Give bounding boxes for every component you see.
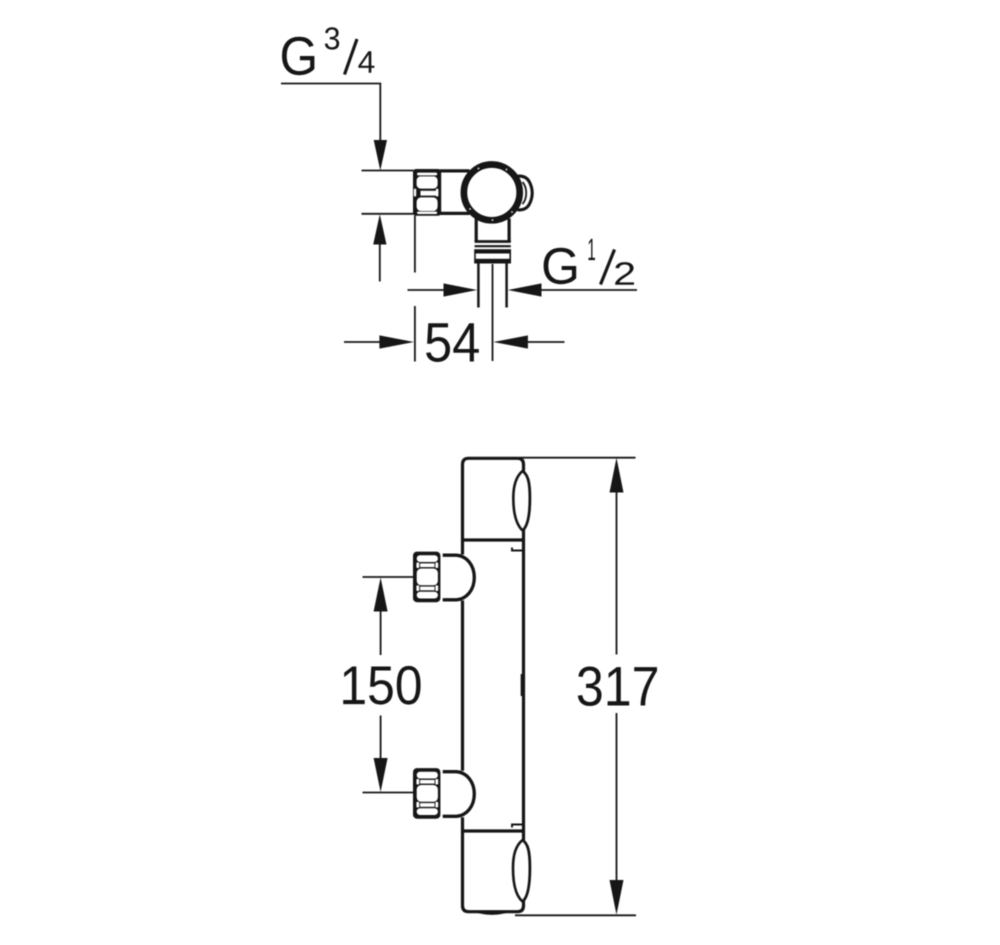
top grip lens xyxy=(513,471,522,531)
pipe width dim row xyxy=(408,289,446,291)
ring white specks xyxy=(469,168,513,221)
label 150 xyxy=(343,666,420,705)
150 dim: bottom ext line xyxy=(363,792,414,794)
slash of G 3/4 xyxy=(345,39,358,75)
right seam tick mid body xyxy=(520,674,522,696)
top cap divider xyxy=(461,538,525,541)
bottom grip lens xyxy=(513,840,523,902)
mark above divider xyxy=(512,825,523,828)
outlet neck xyxy=(475,219,478,243)
bottom edge xyxy=(463,906,524,912)
slash of G 1/2 xyxy=(601,250,615,285)
right edge segments xyxy=(522,464,525,472)
317 dim: bottom ext line xyxy=(515,914,636,916)
bottom cap divider xyxy=(461,829,525,832)
inlet barrel xyxy=(440,169,470,172)
mark under divider xyxy=(512,548,523,551)
valve body circle (thick ring) xyxy=(464,165,520,221)
tab inner line xyxy=(523,182,527,204)
lower hex nut xyxy=(413,768,440,819)
upper hex nut xyxy=(413,552,440,603)
ext line nut bottom edge xyxy=(362,213,414,215)
ext line nut top edge xyxy=(362,170,414,172)
left ext line (nut left edge) xyxy=(414,216,416,273)
top edge xyxy=(463,458,524,464)
label 317 xyxy=(578,667,657,707)
upper connection dome xyxy=(443,555,475,600)
lower connection dome xyxy=(443,772,475,817)
leader down arrowhead xyxy=(374,140,387,171)
label G 1/2 xyxy=(544,239,634,285)
collar band xyxy=(474,249,511,253)
150 down arrow xyxy=(380,716,382,760)
hex nut (top view) xyxy=(413,169,441,216)
label G 3/4 xyxy=(282,27,374,75)
317 down arrow xyxy=(616,713,618,882)
right tab on ring xyxy=(518,176,533,210)
54 dim row xyxy=(344,341,381,343)
outlet pipe xyxy=(477,263,480,307)
317 up arrow xyxy=(610,458,624,493)
150 dim: top ext line xyxy=(363,576,414,578)
collar lines xyxy=(475,240,511,243)
pipe centre line xyxy=(492,264,494,361)
label 54 xyxy=(426,323,479,362)
leader line from G 3/4 xyxy=(281,84,380,143)
left edge segments xyxy=(461,464,464,555)
bottom cap dome seam xyxy=(478,912,506,914)
317 dim: top ext line xyxy=(519,457,636,459)
up arrow to nut bottom xyxy=(373,214,386,244)
150 up arrow xyxy=(374,578,388,612)
